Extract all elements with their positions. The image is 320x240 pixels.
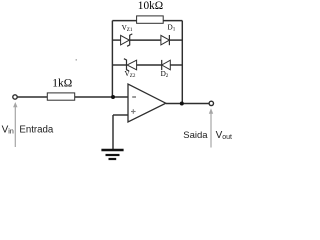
svg-text:10kΩ: 10kΩ xyxy=(138,0,163,12)
svg-text:Entrada: Entrada xyxy=(19,124,54,135)
svg-text:Saida: Saida xyxy=(183,130,208,141)
svg-text:1kΩ: 1kΩ xyxy=(52,78,72,90)
